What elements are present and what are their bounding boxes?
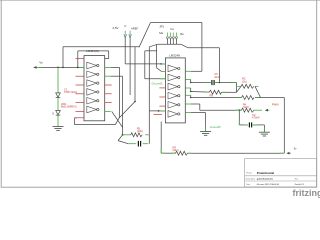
svg-text:470nF: 470nF — [252, 116, 260, 120]
svg-text:10nF: 10nF — [214, 75, 220, 79]
svg-text:(10k): (10k) — [137, 129, 143, 133]
svg-text:Rév: Rév — [295, 179, 298, 181]
svg-text:Re: Re — [180, 32, 184, 36]
svg-text:Date: Date — [246, 183, 250, 186]
svg-text:04 mars 2019 13h04:34: 04 mars 2019 13h04:34 — [257, 183, 280, 186]
svg-text:LM324(N): LM324(N) — [86, 49, 99, 53]
svg-text:Me: Me — [159, 31, 163, 35]
svg-text:AREF: AREF — [131, 27, 139, 31]
svg-text:(1k6): (1k6) — [243, 105, 249, 109]
svg-text:Ground5: Ground5 — [152, 81, 163, 85]
svg-text:(1k): (1k) — [242, 79, 247, 83]
svg-text:potentiostat.fzz: potentiostat.fzz — [257, 178, 274, 181]
svg-text:Ce: Ce — [170, 27, 174, 31]
svg-text:JP1: JP1 — [159, 25, 164, 29]
svg-text:(9k1): (9k1) — [173, 148, 179, 152]
svg-text:Feuille 1/1: Feuille 1/1 — [295, 184, 305, 186]
svg-text:LM324N: LM324N — [169, 54, 180, 58]
svg-text:Vo: Vo — [39, 61, 43, 65]
svg-text:PWM: PWM — [272, 103, 279, 107]
svg-text:C: C — [124, 24, 126, 28]
svg-text:R8: R8 — [210, 93, 214, 97]
svg-text:Potentiostat: Potentiostat — [257, 171, 274, 175]
svg-text:fritzing: fritzing — [293, 188, 320, 198]
svg-text:4,5V: 4,5V — [112, 26, 118, 30]
svg-text:9k(0.069R/V): 9k(0.069R/V) — [61, 105, 77, 109]
svg-text:Voted by fé: Voted by fé — [246, 178, 255, 181]
svg-text:Ground5: Ground5 — [210, 125, 221, 129]
svg-text:TANT(10u): TANT(10u) — [64, 90, 77, 94]
svg-text:Projet: Projet — [246, 172, 252, 175]
